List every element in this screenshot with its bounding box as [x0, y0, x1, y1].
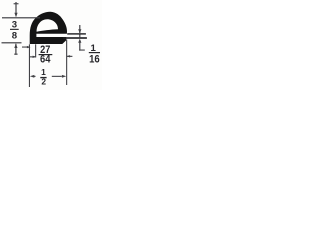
bottom arrow of 3/8 (up arrow with tail tick): [14, 43, 17, 54]
left extension line of 1/2 (outer left wall): [29, 44, 30, 87]
e-profile body (solid black extrusion cross-section): [30, 12, 67, 44]
1/16 vertical dimension line with arrows and leader to label: [78, 25, 85, 51]
top arrow of 3/8 (down arrow with tail tick): [14, 2, 19, 17]
svg-text:64: 64: [40, 54, 51, 66]
svg-text:3: 3: [12, 19, 17, 30]
27/64 left arrow (points right at inner wall line): [29, 56, 36, 58]
1/2 dimension line with outward arrows: [30, 75, 66, 78]
top extension line (3/8): [2, 17, 40, 18]
svg-text:16: 16: [89, 53, 100, 65]
right extension line of 1/2 (outer right edge): [66, 40, 67, 86]
bottom extension line (3/8): [2, 42, 22, 43]
svg-text:8: 8: [12, 30, 18, 41]
svg-text:2: 2: [41, 77, 46, 87]
inner-wall extension line (27/64): [35, 44, 36, 57]
27/64 fraction label: [39, 44, 53, 66]
dimensioned cross-section drawing of e-shaped extrusion profile: [0, 0, 102, 90]
27/64 right arrow (points left at right edge line): [66, 55, 72, 57]
upper 1/16 extension line (slit top edge): [67, 33, 86, 34]
small tick arrow at outer-left wall: [22, 46, 31, 48]
3/8 fraction label: [10, 19, 19, 41]
lower 1/16 extension line (slit bottom / bottom stroke top edge): [63, 37, 87, 39]
1/2 fraction label: [40, 67, 46, 86]
1/16 fraction label: [89, 43, 100, 65]
